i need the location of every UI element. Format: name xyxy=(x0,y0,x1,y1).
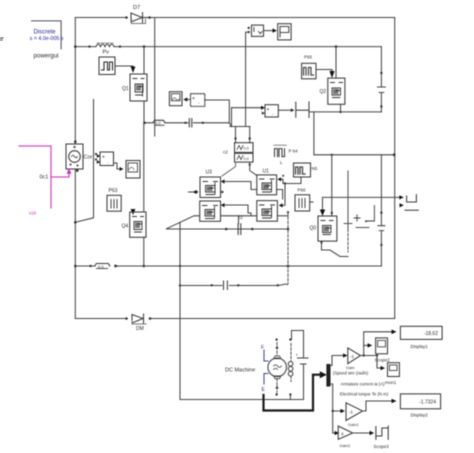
capacitor C4 xyxy=(378,155,385,266)
node y285 a xyxy=(211,284,213,286)
wire N5 gate net xyxy=(283,177,301,183)
wire field loop bottom xyxy=(180,372,304,400)
wire signal magenta xyxy=(19,146,69,208)
wire Q0 drain xyxy=(331,155,333,216)
node field top xyxy=(289,338,291,340)
svg-text:Q2: Q2 xyxy=(320,89,327,95)
svg-text:Cor: Cor xyxy=(84,155,93,161)
outport Out1 xyxy=(407,195,417,202)
node x288 bus xyxy=(287,228,290,231)
wire right border xyxy=(394,18,396,319)
node snubber b xyxy=(249,137,251,139)
svg-text:.: . xyxy=(108,160,109,166)
wire x180 tap xyxy=(179,222,181,399)
gate arrow Display1 xyxy=(392,330,397,335)
svg-text:Discrete: Discrete xyxy=(33,29,56,35)
svg-text:Q0: Q0 xyxy=(310,226,317,232)
wire Q0 gate net xyxy=(323,197,400,209)
wire U2 drop x288 xyxy=(286,212,288,285)
dc machine field winding xyxy=(288,344,293,382)
wire Vmeas to Scope1 xyxy=(187,99,191,101)
node y266 x180 xyxy=(179,265,181,267)
node U3 left xyxy=(196,191,198,193)
wire C6 to corner xyxy=(310,112,314,155)
svg-text:4: 4 xyxy=(341,432,344,437)
node top-rail diode cathode xyxy=(148,16,151,19)
gate arrow scope input xyxy=(120,167,124,171)
svg-text:Q4: Q4 xyxy=(122,224,129,230)
svg-text:P66: P66 xyxy=(298,188,307,193)
capacitor C5 xyxy=(378,47,386,112)
transistor Q4 xyxy=(122,212,147,237)
wire Q4 source xyxy=(143,237,145,266)
wire lower rail y266 xyxy=(75,265,381,267)
gate arrow Display2 xyxy=(392,399,397,404)
svg-text:+: + xyxy=(267,107,270,113)
wire bottom rail xyxy=(75,318,394,320)
transistor Q1 xyxy=(122,74,147,101)
svg-text:Gain2: Gain2 xyxy=(340,443,351,448)
scope Scope5 xyxy=(278,24,291,40)
capacitor C6 xyxy=(296,102,309,118)
edge mark xyxy=(0,38,3,40)
wire boost mid y112 xyxy=(314,111,382,113)
gate arrow into Scope1 xyxy=(183,97,187,101)
svg-text:-1: -1 xyxy=(349,410,353,415)
svg-text:L: L xyxy=(280,160,283,165)
node y266 x288 xyxy=(287,265,290,268)
node snubber a xyxy=(234,137,236,139)
wire Pv to Q1 gate xyxy=(115,66,133,67)
gate arrow scope3 in xyxy=(370,431,375,435)
svg-text:Scope3: Scope3 xyxy=(374,444,390,449)
gate arrow gain2 in xyxy=(340,409,345,413)
node gain1 branch2 xyxy=(376,354,378,356)
wire V2 output xyxy=(278,109,290,111)
wire S2 tail dashed xyxy=(347,229,349,252)
node y154 border xyxy=(393,153,396,156)
wire Q0 source tail xyxy=(322,241,349,256)
wire snubber a tail xyxy=(222,162,236,176)
wire Q4 drain xyxy=(143,123,145,212)
svg-text:N5: N5 xyxy=(312,166,318,171)
pulse generator P66 xyxy=(295,188,310,212)
gate arrow gain1 in xyxy=(343,353,348,357)
capacitor C3 xyxy=(224,281,228,290)
powergui block xyxy=(30,21,64,59)
wire Q1 source xyxy=(143,101,145,123)
pulse generator P63 xyxy=(107,188,121,211)
node Q2 source xyxy=(339,111,341,113)
node snubber b tail xyxy=(249,164,251,166)
wire B1 to Scope5 xyxy=(264,30,273,32)
transistor Q2 xyxy=(320,78,345,104)
pulse generator N5 xyxy=(294,163,318,177)
wire feedback vertical x93 xyxy=(75,100,93,223)
wire B1 input riser xyxy=(246,32,249,126)
node bus c xyxy=(225,228,228,231)
wire field bottom stub xyxy=(289,395,291,400)
svg-text:+: + xyxy=(296,353,299,358)
node bottom-rail diode anode xyxy=(125,317,128,320)
wire U4 drain right xyxy=(221,215,239,217)
gate arrow demux input xyxy=(320,371,327,378)
svg-text:+: + xyxy=(102,155,105,161)
wire demux stub xyxy=(313,374,321,376)
svg-text:c2: c2 xyxy=(238,215,243,220)
wire snubber feed a xyxy=(235,127,237,143)
gate arrow Q0 xyxy=(320,210,325,217)
node B1 in1 xyxy=(248,27,250,29)
wire U4 source diagonal xyxy=(167,216,200,229)
gate arrow U4 xyxy=(221,203,225,207)
node sum in1 xyxy=(95,153,97,155)
wire to Scope2 xyxy=(364,344,368,346)
switch S2 sketch xyxy=(344,206,374,228)
svg-text:D7: D7 xyxy=(133,5,140,11)
wire demux out2 xyxy=(330,384,340,433)
pulse generator P65 xyxy=(302,55,316,79)
wire P65 to Q2 gate xyxy=(316,70,332,72)
diode D7 xyxy=(131,5,149,24)
node RC mid xyxy=(184,122,186,124)
node armature bottom xyxy=(275,393,277,395)
wire vertical x154 xyxy=(154,18,156,137)
svg-text:Display2: Display2 xyxy=(411,413,429,418)
dc machine field bracket blue xyxy=(264,350,268,384)
gain Gain1 xyxy=(346,403,363,427)
node bottom-rail diode cathode xyxy=(149,317,152,320)
gate arrow U1 xyxy=(277,177,281,181)
svg-text:P63: P63 xyxy=(109,188,118,194)
wire snubber b tail xyxy=(250,162,257,175)
svg-text:+: + xyxy=(192,96,195,102)
node RC right xyxy=(202,122,204,124)
wire top rail xyxy=(75,17,394,19)
wire second rail xyxy=(75,46,381,48)
node rail2 left xyxy=(74,45,77,48)
gate arrow Q1 xyxy=(131,67,136,74)
wire to Display1 xyxy=(364,332,392,356)
demux selector xyxy=(327,365,330,387)
wire armature dashes top xyxy=(276,343,278,357)
wire cap C2 stub xyxy=(238,216,240,224)
wire U1 right port down xyxy=(277,190,283,200)
node sum in2 xyxy=(95,158,97,160)
gate arrow Scope2 xyxy=(368,343,373,347)
scope mon1 xyxy=(385,363,399,385)
node y266 pre-resistor xyxy=(89,265,91,267)
wire demux out1 xyxy=(330,356,343,366)
gate arrow outport1 xyxy=(399,195,404,199)
diode DM xyxy=(132,314,146,332)
svg-text:s1b: s1b xyxy=(29,211,37,216)
node rail2 Q1 tap xyxy=(143,45,146,48)
gate arrow sum in1 xyxy=(97,154,100,158)
wire armature cap row y285 xyxy=(180,284,286,286)
wire gain2 out xyxy=(363,401,392,411)
node Q0 rail xyxy=(331,154,333,156)
wire to mon1 xyxy=(377,356,381,369)
dc machine armature symbol xyxy=(268,356,287,379)
capacitor C2 on bus xyxy=(238,224,241,235)
resistor R1 0,0 xyxy=(153,120,165,125)
node demux out2 xyxy=(332,410,334,412)
scope Scope3 xyxy=(374,426,390,449)
node Coc top xyxy=(74,140,77,143)
node y266 left xyxy=(74,265,77,268)
node B1 in2 xyxy=(248,31,250,33)
svg-text:Display1: Display1 xyxy=(411,344,429,349)
svg-text:-: - xyxy=(272,112,274,117)
wire bridge lower bus y229 xyxy=(167,228,289,230)
svg-text:powergui: powergui xyxy=(33,52,58,59)
gate arrow U3 xyxy=(221,179,225,183)
mosfet U1 xyxy=(257,175,277,195)
svg-text:E: E xyxy=(262,387,266,393)
gate tick armature bottom xyxy=(275,386,279,389)
svg-text:U1: U1 xyxy=(263,169,270,175)
gate arrow U2 xyxy=(279,203,283,207)
node Coc bottom xyxy=(76,169,79,172)
node gain1 branch1 xyxy=(363,354,365,356)
gate arrow V2 input xyxy=(261,106,265,110)
scope Scope2 xyxy=(375,338,391,363)
gate arrow gain3 in xyxy=(335,431,340,435)
wire measurement thick xyxy=(264,375,314,411)
svg-text:-1.7324: -1.7324 xyxy=(419,400,436,406)
gate arrow magenta into Coc xyxy=(67,168,72,174)
gate arrow Scope5 xyxy=(273,28,277,32)
node y266 x381 xyxy=(380,244,382,246)
wire gain3 out xyxy=(353,432,370,434)
svg-text:-1: -1 xyxy=(350,354,354,359)
node y285 b xyxy=(237,284,239,286)
node U3 right xyxy=(221,191,223,193)
display Display2 xyxy=(400,394,440,418)
battery B2 field source xyxy=(296,350,309,372)
selector block B1 xyxy=(252,25,264,36)
wire S2 riser xyxy=(347,171,349,229)
svg-text:0,0: 0,0 xyxy=(244,157,249,161)
node U2 right top xyxy=(287,211,289,213)
svg-text:0,0: 0,0 xyxy=(244,147,249,151)
mosfet U2 xyxy=(257,201,278,222)
svg-text:s = 4.0e-005 s: s = 4.0e-005 s xyxy=(30,36,64,42)
node Q0 drain xyxy=(331,212,333,214)
svg-text:22: 22 xyxy=(264,186,269,191)
wire gain3 in xyxy=(333,432,335,434)
snubber RC1 xyxy=(235,143,254,153)
wire y154 row xyxy=(315,154,395,156)
svg-text:F: F xyxy=(261,345,264,351)
wire U3 left stub xyxy=(189,191,194,193)
node U1 right mark xyxy=(282,175,284,177)
gate arrow outport2 xyxy=(400,203,404,207)
node gate net branch xyxy=(284,182,286,184)
wire Q2 source xyxy=(340,104,342,112)
svg-text:P 64: P 64 xyxy=(289,149,299,154)
svg-text:DC Machine: DC Machine xyxy=(225,368,255,374)
wire vmeas2 input xyxy=(232,107,262,109)
gate tick armature top xyxy=(275,346,279,349)
svg-text:(Speed wm (rad/s): (Speed wm (rad/s) xyxy=(333,371,369,376)
node Q0 source xyxy=(320,241,322,243)
wire snubber feed b xyxy=(249,127,251,143)
wire bridge top bus y126 xyxy=(230,126,250,128)
node RC left xyxy=(143,122,146,125)
node y285 right xyxy=(277,284,279,286)
node bus d xyxy=(251,228,254,231)
wire sum to Scope xyxy=(114,163,120,169)
scope Scope4 xyxy=(126,161,140,179)
node rail2 Q2 tap xyxy=(335,45,338,48)
wire gain1 out xyxy=(361,355,378,357)
svg-text:-18.62: -18.62 xyxy=(424,331,438,337)
node rail2 a xyxy=(88,45,90,47)
wire U2 right port xyxy=(277,215,288,217)
node rail2 b xyxy=(119,45,121,47)
wire armature dashes bottom xyxy=(276,379,278,393)
wire P66 stub xyxy=(310,201,313,203)
node field bottom xyxy=(289,393,291,395)
gain Gain2 xyxy=(338,426,353,448)
voltage measurement V2 xyxy=(262,105,279,117)
transistor Q0 xyxy=(310,216,337,241)
svg-text:Electrical torque Te (N m): Electrical torque Te (N m) xyxy=(340,391,389,396)
svg-text:U3: U3 xyxy=(206,170,213,176)
node Q4 source join xyxy=(143,265,146,268)
pulse generator P64 xyxy=(274,145,298,165)
wire U4 gate xyxy=(224,205,251,213)
wire left border xyxy=(74,18,76,145)
gate arrow sum in2 xyxy=(97,160,100,164)
gate arrow C6 xyxy=(291,108,295,112)
mosfet U4 xyxy=(200,201,221,221)
svg-text:mon1: mon1 xyxy=(385,380,397,385)
pulse generator Pv xyxy=(99,50,115,75)
wire RC snubber row xyxy=(144,123,232,127)
wire U1 gate jog xyxy=(281,179,283,183)
capacitor C1 xyxy=(189,119,192,128)
inductor Lf xyxy=(96,43,114,47)
svg-text:P65: P65 xyxy=(304,55,313,60)
node armature top xyxy=(275,338,277,340)
svg-text:Gain1: Gain1 xyxy=(348,422,359,427)
svg-text:DM: DM xyxy=(136,326,144,332)
svg-text:0c1: 0c1 xyxy=(40,175,49,181)
gate arrow Q2 xyxy=(329,71,334,78)
gain Gain xyxy=(346,348,361,370)
gate arrow Q4 xyxy=(131,209,136,215)
display Display1 xyxy=(400,326,442,349)
node top-rail diode anode xyxy=(125,16,128,19)
voltage measurement V1 xyxy=(191,94,205,107)
svg-text:Armature current ia (A): Armature current ia (A) xyxy=(341,381,385,386)
node feedback join xyxy=(74,221,77,224)
scope Scope1 xyxy=(169,92,182,106)
resistor R2 0,0 xyxy=(95,264,119,269)
node x180 y285 xyxy=(179,284,181,286)
gate arrow U3 left stub xyxy=(193,190,197,194)
mosfet U3 xyxy=(200,177,221,198)
svg-text:-: - xyxy=(198,101,200,106)
svg-text:Pv: Pv xyxy=(103,50,110,56)
snubber RC2 xyxy=(235,153,254,162)
controlled source Coc xyxy=(66,144,93,169)
wire Q1 drain xyxy=(143,47,145,74)
wire field loop top xyxy=(292,331,304,350)
outport Out2 xyxy=(405,209,418,211)
svg-text:Q1: Q1 xyxy=(122,86,129,92)
wire U2 left port xyxy=(239,213,257,216)
wire Q2 drain xyxy=(335,47,337,79)
svg-text:0,0: 0,0 xyxy=(155,121,161,126)
gate arrow mon1 xyxy=(381,366,386,370)
wire gate net to U2 xyxy=(282,184,285,206)
svg-text:0,0: 0,0 xyxy=(98,264,104,269)
wire U3 gate to U1 left xyxy=(224,182,256,190)
svg-text:Gain: Gain xyxy=(346,365,354,370)
wire Vmeas output xyxy=(205,100,230,123)
svg-text:c2: c2 xyxy=(223,150,228,155)
sum block S1 xyxy=(100,152,114,166)
wire bridge feed vertical x231 xyxy=(231,108,233,127)
